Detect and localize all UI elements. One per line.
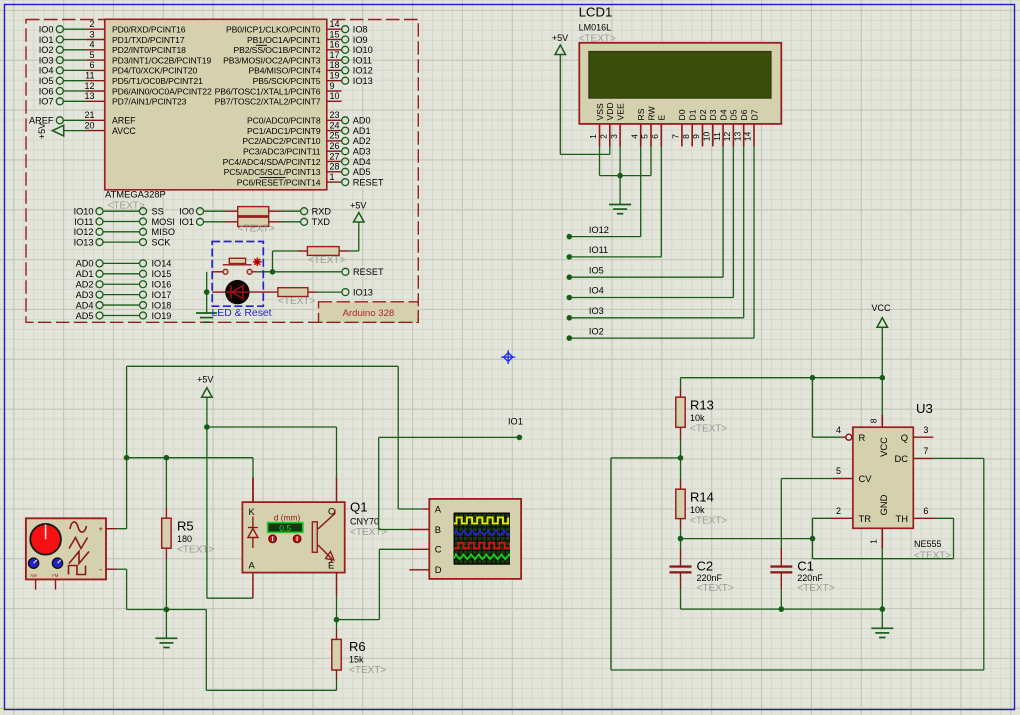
svg-text:PB3/MOSI/OC2A/PCINT3: PB3/MOSI/OC2A/PCINT3: [223, 55, 321, 65]
svg-text:SCK: SCK: [152, 237, 172, 247]
svg-text:D1: D1: [688, 109, 698, 120]
svg-text:PD1/TXD/PCINT17: PD1/TXD/PCINT17: [112, 35, 185, 45]
svg-text:23: 23: [330, 110, 340, 120]
svg-text:14: 14: [743, 132, 753, 142]
svg-text:IO4: IO4: [39, 66, 54, 76]
svg-text:R5: R5: [177, 519, 194, 534]
svg-text:AD3: AD3: [76, 290, 94, 300]
svg-text:GND: GND: [878, 494, 889, 515]
svg-text:IO11: IO11: [74, 217, 93, 227]
svg-text:PC3/ADC3/PCINT11: PC3/ADC3/PCINT11: [243, 147, 321, 157]
svg-text:RXD: RXD: [312, 207, 332, 217]
svg-text:RESET: RESET: [353, 267, 384, 277]
svg-text:NE555: NE555: [914, 539, 942, 549]
svg-text:PB5/SCK/PCINT5: PB5/SCK/PCINT5: [253, 76, 321, 86]
svg-text:11: 11: [712, 132, 722, 141]
svg-text:IO1: IO1: [508, 417, 523, 427]
svg-text:12: 12: [722, 132, 732, 142]
svg-text:16: 16: [330, 40, 340, 50]
svg-text:8: 8: [681, 134, 691, 139]
svg-text:IO13: IO13: [74, 237, 94, 247]
svg-text:AVCC: AVCC: [112, 126, 136, 136]
svg-text:28: 28: [330, 162, 340, 172]
svg-text:IO12: IO12: [74, 227, 94, 237]
svg-text:15: 15: [330, 29, 340, 39]
svg-text:180: 180: [177, 534, 192, 544]
svg-text:+5V: +5V: [552, 33, 568, 43]
svg-text:AD0: AD0: [76, 259, 94, 269]
svg-text:<TEXT>: <TEXT>: [238, 224, 275, 235]
svg-text:14: 14: [330, 19, 340, 29]
svg-text:AD3: AD3: [353, 147, 371, 157]
svg-text:220nF: 220nF: [797, 573, 823, 583]
svg-text:<TEXT>: <TEXT>: [308, 255, 345, 266]
svg-text:17: 17: [330, 50, 340, 60]
svg-text:MISO: MISO: [152, 227, 175, 237]
svg-text:IO12: IO12: [589, 225, 609, 235]
svg-text:IO14: IO14: [152, 259, 172, 269]
svg-text:VCC: VCC: [871, 303, 891, 313]
svg-text:AD2: AD2: [76, 280, 94, 290]
svg-text:18: 18: [330, 60, 340, 70]
svg-text:21: 21: [84, 110, 94, 120]
svg-text:<TEXT>: <TEXT>: [797, 583, 834, 594]
svg-text:IO4: IO4: [589, 286, 604, 296]
svg-text:6: 6: [923, 506, 928, 516]
svg-text:<TEXT>: <TEXT>: [278, 296, 315, 307]
svg-text:DC: DC: [894, 453, 908, 464]
svg-text:<TEXT>: <TEXT>: [914, 550, 951, 561]
svg-text:15k: 15k: [349, 655, 364, 665]
svg-text:+5V: +5V: [37, 123, 47, 139]
svg-text:PC0/ADC0/PCINT8: PC0/ADC0/PCINT8: [247, 116, 321, 126]
svg-text:VCC: VCC: [878, 437, 889, 457]
svg-text:PC1/ADC1/PCINT9: PC1/ADC1/PCINT9: [247, 126, 321, 136]
svg-text:7: 7: [671, 134, 681, 139]
svg-text:3: 3: [609, 134, 619, 139]
svg-text:2: 2: [89, 19, 94, 29]
svg-text:Q: Q: [901, 432, 908, 443]
svg-text:D2: D2: [698, 109, 708, 120]
svg-text:IO1: IO1: [179, 217, 194, 227]
svg-text:0.5: 0.5: [279, 523, 291, 533]
svg-text:4: 4: [836, 425, 841, 435]
svg-text:3: 3: [923, 425, 928, 435]
svg-text:IO13: IO13: [353, 287, 373, 297]
svg-text:U3: U3: [916, 401, 933, 416]
svg-text:A: A: [435, 503, 442, 514]
svg-text:AD1: AD1: [76, 269, 94, 279]
svg-text:<TEXT>: <TEXT>: [177, 544, 214, 555]
svg-text:D4: D4: [718, 109, 728, 120]
svg-text:PD2/INT0/PCINT18: PD2/INT0/PCINT18: [112, 45, 186, 55]
svg-text:Arduino 328: Arduino 328: [343, 308, 395, 319]
svg-text:R13: R13: [690, 398, 714, 413]
svg-text:PD4/T0/XCK/PCINT20: PD4/T0/XCK/PCINT20: [112, 66, 197, 76]
svg-text:PD5/T1/OC0B/PCINT21: PD5/T1/OC0B/PCINT21: [112, 76, 203, 86]
svg-text:R: R: [859, 432, 866, 443]
svg-text:AD5: AD5: [353, 167, 371, 177]
svg-text:AD1: AD1: [353, 126, 371, 136]
svg-text:9: 9: [330, 81, 335, 91]
svg-text:IO11: IO11: [589, 245, 608, 255]
svg-text:IO10: IO10: [353, 45, 373, 55]
svg-text:PB2/SS/OC1B/PCINT2: PB2/SS/OC1B/PCINT2: [233, 45, 320, 55]
svg-text:3: 3: [89, 29, 94, 39]
svg-text:<TEXT>: <TEXT>: [697, 583, 734, 594]
svg-text:D: D: [435, 564, 442, 575]
svg-text:MOSI: MOSI: [152, 217, 175, 227]
svg-text:IO0: IO0: [179, 207, 194, 217]
svg-text:PD3/INT1/OC2B/PCINT19: PD3/INT1/OC2B/PCINT19: [112, 55, 211, 65]
svg-text:VDD: VDD: [605, 102, 615, 120]
svg-text:PB4/MISO/PCINT4: PB4/MISO/PCINT4: [248, 66, 320, 76]
svg-text:IO5: IO5: [39, 76, 54, 86]
svg-text:5: 5: [836, 466, 841, 476]
svg-text:IO12: IO12: [353, 66, 373, 76]
svg-text:PD0/RXD/PCINT16: PD0/RXD/PCINT16: [112, 25, 186, 35]
svg-text:4: 4: [629, 134, 639, 139]
svg-text:20: 20: [84, 120, 94, 130]
svg-text:2: 2: [599, 134, 609, 139]
svg-text:VSS: VSS: [595, 103, 605, 120]
svg-text:IO17: IO17: [152, 290, 172, 300]
svg-text:1: 1: [330, 172, 335, 182]
svg-text:D0: D0: [677, 109, 687, 120]
svg-text:13: 13: [732, 132, 742, 142]
svg-text:TR: TR: [859, 513, 872, 524]
svg-text:IO3: IO3: [39, 55, 54, 65]
svg-text:12: 12: [84, 81, 94, 91]
svg-text:ATMEGA328P: ATMEGA328P: [105, 189, 166, 200]
svg-text:IO2: IO2: [589, 326, 604, 336]
svg-text:6: 6: [89, 60, 94, 70]
svg-text:<TEXT>: <TEXT>: [349, 665, 386, 676]
svg-text:IO10: IO10: [74, 207, 94, 217]
svg-text:LED & Reset: LED & Reset: [212, 308, 272, 319]
svg-text:K: K: [249, 506, 256, 517]
svg-text:AM: AM: [30, 573, 37, 578]
svg-text:IO3: IO3: [589, 306, 604, 316]
svg-text:B: B: [435, 524, 441, 535]
svg-text:RS: RS: [636, 108, 646, 120]
svg-text:19: 19: [330, 71, 340, 81]
svg-text:VEE: VEE: [615, 103, 625, 120]
svg-text:PC6/RESET/PCINT14: PC6/RESET/PCINT14: [237, 177, 321, 187]
svg-text:D5: D5: [729, 109, 739, 120]
svg-text:D6: D6: [739, 109, 749, 120]
svg-text:SS: SS: [152, 207, 164, 217]
svg-text:6: 6: [650, 134, 660, 139]
svg-text:220nF: 220nF: [697, 573, 723, 583]
svg-text:AD4: AD4: [353, 157, 371, 167]
svg-text:9: 9: [691, 134, 701, 139]
svg-text:D3: D3: [708, 109, 718, 120]
svg-text:IO11: IO11: [353, 55, 372, 65]
svg-text:CV: CV: [859, 473, 873, 484]
svg-text:TH: TH: [896, 513, 909, 524]
svg-text:AD5: AD5: [76, 311, 94, 321]
svg-text:D7: D7: [749, 109, 759, 120]
svg-text:24: 24: [330, 120, 340, 130]
svg-text:+5V: +5V: [197, 374, 213, 384]
svg-text:IO7: IO7: [39, 97, 54, 107]
svg-text:5: 5: [640, 134, 650, 139]
svg-text:11: 11: [85, 71, 94, 81]
svg-text:10k: 10k: [690, 505, 705, 515]
svg-text:C: C: [435, 544, 442, 555]
svg-text:PB6/TOSC1/XTAL1/PCINT6: PB6/TOSC1/XTAL1/PCINT6: [215, 86, 321, 96]
svg-text:4: 4: [89, 40, 94, 50]
svg-text:26: 26: [330, 141, 340, 151]
svg-text:RW: RW: [646, 105, 656, 120]
svg-text:AD4: AD4: [76, 300, 94, 310]
svg-text:IO6: IO6: [39, 86, 54, 96]
svg-text:-: -: [99, 565, 102, 575]
svg-text:+: +: [98, 524, 103, 533]
svg-text:PD6/AIN0/OC0A/PCINT22: PD6/AIN0/OC0A/PCINT22: [112, 86, 212, 96]
svg-text:d (mm): d (mm): [274, 512, 301, 522]
svg-text:IO2: IO2: [39, 45, 54, 55]
svg-text:2: 2: [836, 506, 841, 516]
svg-text:A: A: [249, 559, 256, 570]
svg-text:LCD1: LCD1: [579, 4, 613, 19]
svg-text:R14: R14: [690, 490, 714, 505]
svg-text:IO15: IO15: [152, 269, 172, 279]
svg-text:5: 5: [89, 50, 94, 60]
svg-text:PC2/ADC2/PCINT10: PC2/ADC2/PCINT10: [242, 136, 320, 146]
svg-text:FM: FM: [52, 573, 59, 578]
svg-text:IO1: IO1: [39, 35, 54, 45]
svg-text:IO13: IO13: [353, 76, 373, 86]
svg-text:1: 1: [588, 134, 598, 139]
svg-text:IO8: IO8: [353, 25, 368, 35]
svg-text:PC4/ADC4/SDA/PCINT12: PC4/ADC4/SDA/PCINT12: [223, 157, 321, 167]
svg-text:+5V: +5V: [350, 201, 366, 211]
svg-text:10: 10: [330, 91, 340, 101]
svg-text:TXD: TXD: [312, 217, 331, 227]
svg-text:R6: R6: [349, 639, 366, 654]
svg-text:8: 8: [869, 418, 879, 423]
svg-text:IO16: IO16: [152, 280, 172, 290]
svg-text:IO0: IO0: [39, 25, 54, 35]
svg-text:PB7/TOSC2/XTAL2/PCINT7: PB7/TOSC2/XTAL2/PCINT7: [215, 97, 321, 107]
svg-text:E: E: [657, 115, 667, 121]
svg-text:27: 27: [330, 151, 340, 161]
svg-text:RESET: RESET: [353, 177, 384, 187]
svg-text:PB0/ICP1/CLKO/PCINT0: PB0/ICP1/CLKO/PCINT0: [226, 25, 321, 35]
svg-text:CNY70: CNY70: [350, 517, 379, 527]
svg-text:C2: C2: [697, 558, 714, 573]
svg-text:Q1: Q1: [350, 500, 368, 515]
svg-text:25: 25: [330, 131, 340, 141]
svg-text:<TEXT>: <TEXT>: [690, 515, 727, 526]
svg-text:AREF: AREF: [112, 116, 136, 126]
svg-text:IO9: IO9: [353, 35, 368, 45]
svg-text:C1: C1: [797, 558, 814, 573]
svg-text:IO5: IO5: [589, 265, 604, 275]
svg-text:PD7/AIN1/PCINT23: PD7/AIN1/PCINT23: [112, 97, 187, 107]
svg-text:1: 1: [869, 539, 879, 544]
svg-text:13: 13: [84, 91, 94, 101]
svg-text:PC5/ADC5/SCL/PCINT13: PC5/ADC5/SCL/PCINT13: [224, 167, 321, 177]
svg-text:IO19: IO19: [152, 311, 172, 321]
svg-text:10: 10: [702, 132, 712, 142]
svg-text:AD2: AD2: [353, 136, 371, 146]
svg-text:IO18: IO18: [152, 300, 172, 310]
svg-text:<TEXT>: <TEXT>: [690, 423, 727, 434]
svg-text:AD0: AD0: [353, 116, 371, 126]
svg-text:10k: 10k: [690, 413, 705, 423]
svg-text:7: 7: [923, 446, 928, 456]
svg-text:LM016L: LM016L: [579, 23, 612, 33]
svg-text:PB1/OC1A/PCINT1: PB1/OC1A/PCINT1: [247, 35, 321, 45]
